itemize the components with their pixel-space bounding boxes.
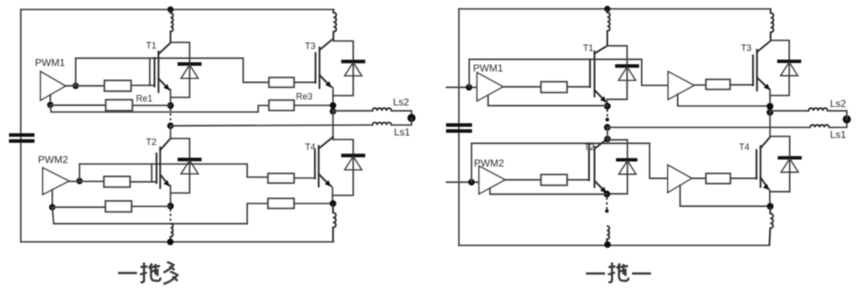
wire: return distribution to Re4: [52, 204, 268, 224]
wire: distribution riser from PWM2: [79, 164, 81, 181]
wire: node to Ls2: [333, 110, 373, 112]
label: 一拖一 (drawn strokes): [586, 263, 651, 283]
resistor: T1 gate resistor (right): [541, 82, 567, 93]
glyph 一: [586, 272, 605, 274]
wire: T3 gate resistor to gate: [294, 81, 316, 83]
transistor Q/T3 IGBT: [305, 40, 332, 88]
node: T2 emitter junction (right): [604, 191, 611, 198]
svg-text:T1: T1: [146, 41, 157, 51]
wire: bottom rail (right): [459, 244, 770, 246]
glyph 多: [164, 262, 178, 284]
node: PWM2 output: [76, 178, 82, 184]
node: PWM1 output: [73, 83, 79, 89]
op-amp PWM1 driver (right): [473, 64, 503, 102]
wire: PWM2 output to gate resistor: [69, 180, 104, 182]
svg-text:T3: T3: [741, 43, 752, 53]
wire: T4 gate resistor to gate: [294, 177, 315, 179]
wire: T1 return to PWM1 (right): [488, 95, 607, 106]
wire: T2 leg to bottom rail (dashed stray + coil): [171, 209, 173, 242]
resistor Re4: [268, 199, 294, 209]
svg-text:Ls2: Ls2: [830, 99, 847, 110]
inductor Ls1: [373, 122, 392, 125]
diode D4 antiparallel (right): [770, 136, 802, 191]
node: PWM1 input junction (right): [466, 84, 473, 91]
resistor Re1: [106, 100, 133, 111]
wire: distribution riser from PWM1 output: [75, 58, 77, 86]
diode D3 antiparallel on T3: [333, 41, 365, 96]
op-amp driver for T3 (right): [668, 72, 694, 100]
transistor T4 IGBT (right): [739, 137, 770, 190]
svg-text:T2: T2: [146, 137, 157, 147]
wire: T2 collector node to body: [170, 126, 172, 139]
node: T1 emitter junction: [167, 102, 174, 109]
wire: Ls2 to output terminal (right): [828, 111, 847, 120]
wire: T1 gate drop from distribution: [149, 58, 151, 85]
node: T4 emitter junction (right): [767, 203, 774, 210]
resistor: T3 gate resistor (right): [706, 80, 730, 90]
wire: driver2 out to resistor (right): [694, 84, 706, 86]
wire: Ls1 to output terminal (right): [829, 119, 847, 127]
node: T2 collector junction: [167, 123, 174, 130]
wire: Re4 to T4 emitter node: [294, 203, 333, 205]
svg-text:PWM1: PWM1: [35, 58, 65, 69]
node: top rail / T1 leg junction: [167, 6, 173, 12]
glyph 拖: [140, 263, 161, 283]
node: output terminal (right): [843, 115, 851, 123]
svg-text:Re1: Re1: [136, 94, 153, 104]
wire: PWM2 input stub (right): [447, 181, 480, 183]
resistor Re2: [106, 201, 132, 212]
capacitor C2 (DC link right): [446, 125, 472, 131]
wire: PWM1 output to gate resistor: [66, 85, 106, 87]
wire: return to Re2: [52, 206, 105, 208]
svg-text:T3: T3: [305, 41, 316, 51]
transistor T2 IGBT (right): [584, 139, 607, 193]
wire: T2 emitter to node (right): [606, 192, 608, 195]
svg-text:Re3: Re3: [296, 92, 313, 102]
wire: signal distribution line (right top): [469, 59, 668, 87]
wire: stray link T1 emitter to T2 collector (dashed): [170, 109, 172, 124]
wire: stray dashed link (right T1-T2): [606, 110, 608, 125]
wire: left DC bus vertical: [20, 10, 22, 242]
op-amp driver for T4 (right): [668, 165, 692, 193]
wire: Ls1 to output terminal: [391, 118, 411, 125]
transistor T1 IGBT (right): [583, 43, 607, 103]
wire: Re3 to T3 emitter node: [294, 104, 333, 106]
node: PWM1 return: [47, 102, 53, 108]
op-amp PWM1 driver: [35, 58, 66, 100]
wire: resistor to T3 gate (right): [730, 84, 753, 86]
node: T3 emitter junction stacked dots (right): [767, 103, 774, 110]
transistor T3 IGBT (right): [741, 41, 771, 91]
node: PWM2 input junction (right): [468, 179, 475, 186]
wire: driver4 out to resistor (right): [692, 177, 706, 179]
wire: T2 gate drop from distribution: [151, 164, 153, 182]
glyph 一: [118, 272, 137, 274]
inductor: T3 stray coil (right): [771, 9, 774, 41]
diode D2 antiparallel (right): [607, 140, 638, 194]
svg-text:PWM2: PWM2: [38, 155, 68, 166]
wire: Ls2 to output terminal: [391, 111, 411, 118]
inductor: T3 stray coil: [333, 10, 336, 42]
wire: T2 return to PWM2 (right): [490, 188, 607, 194]
wire: T4 emitter to node (right): [769, 189, 770, 207]
wire: signal distribution line (right bottom): [472, 143, 668, 182]
resistor: T2 gate resistor (right): [541, 175, 567, 186]
wire: node to Ls2 (right): [770, 110, 809, 112]
diode D2 antiparallel on T2: [171, 139, 202, 194]
resistor Re3: [269, 100, 294, 110]
node: T2 collector diode tap (right): [604, 136, 611, 143]
node: T2 emitter junction: [167, 203, 174, 210]
svg-text:T1: T1: [583, 43, 594, 53]
wire: T2 emitter to node: [170, 186, 172, 207]
wire: Re1 to T1 emitter node: [132, 104, 170, 106]
wire: T3 emitter node down to T4 collector: [332, 111, 334, 139]
op-amp PWM2 driver (right): [474, 159, 505, 195]
svg-text:Ls1: Ls1: [394, 128, 411, 139]
wire: gate resistor to T1 gate: [131, 84, 155, 86]
inductor Ls2: [373, 108, 392, 111]
node: top rail / T1 leg junction (right): [604, 6, 610, 12]
node: T3 emitter junction (stacked dots): [330, 102, 337, 109]
transistor Q/T1 IGBT: [146, 41, 171, 93]
node: bottom rail junction: [167, 239, 174, 246]
wire: T3 emitter to node: [332, 87, 334, 106]
node: PWM2 return: [49, 204, 55, 210]
transistor Q/T2 IGBT: [146, 137, 171, 188]
label: 一拖多 (drawn strokes): [118, 262, 178, 284]
resistor: T3 gate resistor: [269, 78, 294, 88]
resistor: T4 gate resistor (right): [706, 174, 730, 184]
diode D4 antiparallel on T4: [333, 140, 366, 196]
wire: gate distribution line to T4: [80, 164, 269, 177]
glyph 一: [632, 272, 651, 274]
wire: PWM2 return drop: [51, 190, 53, 208]
wire: gate resistor to T1 gate (right): [567, 86, 590, 88]
inductor Ls1 (right): [810, 125, 829, 128]
op-amp PWM2 driver: [38, 155, 69, 195]
resistor: T4 gate resistor: [268, 174, 294, 184]
wire: T2 gate resistor to gate: [130, 181, 157, 183]
svg-text:T4: T4: [739, 142, 750, 152]
svg-text:Ls2: Ls2: [393, 98, 410, 109]
node: bottom rail junction (right): [604, 241, 611, 248]
diode D1 antiparallel on T1: [171, 42, 202, 97]
label: 一拖多: [0, 0, 1, 1]
wire: resistor to T4 gate (right): [730, 177, 756, 179]
wire: gate distribution line to T3: [76, 58, 269, 82]
inductor: T1 stray coil: [171, 10, 174, 43]
wire: driver2 return (right): [678, 94, 770, 106]
wire: driver4 return (right): [680, 185, 770, 206]
node: small mid dot (right): [606, 118, 610, 122]
inductor: T4 leg coil: [333, 204, 336, 242]
wire: T2 leg to bottom rail dashed (right): [605, 198, 609, 245]
transistor Q/T4 IGBT: [305, 137, 333, 187]
node: output terminal: [407, 114, 415, 122]
wire: left DC bus vertical (right): [458, 9, 460, 246]
inductor Ls2 (right): [809, 108, 828, 111]
wire: T2 collector vertical (right): [606, 127, 608, 139]
inductor: T1 stray coil (right): [607, 9, 610, 46]
wire: PWM2 out to gate resistor (right): [505, 179, 541, 181]
diode D3 antiparallel (right): [770, 40, 801, 95]
wire: PWM1 out to gate resistor (right): [503, 86, 541, 88]
wire: bottom rail: [21, 241, 334, 243]
wire: DC bus top rail: [21, 9, 334, 11]
wire: T3 emitter to node (right): [769, 89, 771, 106]
resistor: T1 gate resistor: [105, 81, 132, 92]
node: T2 collector junction (right): [604, 124, 611, 131]
glyph 拖: [608, 263, 629, 283]
wire: T4 emitter to node: [331, 186, 333, 204]
wire: T1 emitter to node (right): [606, 101, 608, 106]
wire: PWM1 input stub (right): [447, 86, 478, 88]
wire: return distribution to Re3: [50, 105, 269, 112]
capacitor C1 (DC link): [9, 135, 35, 141]
inductor: T4 leg coil (right): [769, 206, 773, 245]
wire: gate resistor to T2 gate (right): [567, 179, 589, 181]
diode D1 antiparallel (right): [607, 46, 639, 100]
wire: node to Ls1 (right): [607, 126, 810, 128]
wire: Re2 to T2 emitter node: [132, 205, 171, 207]
wire: return to Re1: [50, 104, 106, 106]
wire: PWM1 return drop: [49, 95, 51, 105]
wire: T1 emitter to node: [170, 90, 172, 106]
svg-text:T4: T4: [305, 142, 316, 152]
resistor: T2 gate resistor: [104, 177, 130, 188]
node: T4 emitter junction: [330, 200, 337, 207]
svg-text:Ls1: Ls1: [830, 130, 847, 141]
wire: T3 node down to T4 collector (right): [769, 112, 771, 136]
node: T1 emitter junction (right): [604, 103, 611, 110]
wire: T2 collector node to Ls1: [171, 124, 373, 127]
wire: DC bus top rail (right): [459, 8, 771, 10]
